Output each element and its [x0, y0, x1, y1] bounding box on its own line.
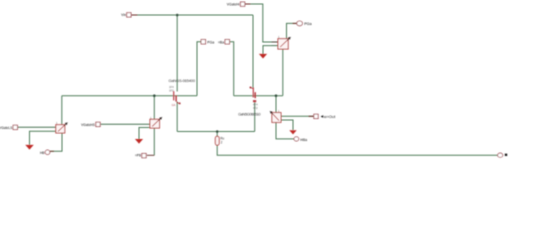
ground G3 [289, 130, 296, 134]
junction left gate line/RV2 [153, 94, 156, 97]
wire G4 stub [263, 46, 278, 54]
port out (circle) [498, 153, 503, 157]
wire P10 drop [230, 42, 234, 96]
svg-text:GaN5G066510: GaN5G066510 [238, 111, 261, 116]
svg-text:HB: HB [40, 151, 45, 155]
svg-text:GaNGS-065400: GaNGS-065400 [169, 78, 196, 83]
port VGateLS [13, 125, 17, 129]
svg-text:w=Out: w=Out [324, 114, 336, 119]
junction right gate line/RV3 [275, 94, 278, 97]
port P9 gate-left [201, 40, 206, 45]
svg-text:VGateLS: VGateLS [0, 126, 13, 130]
resistor R4 [215, 136, 219, 145]
port VmidOut [314, 114, 318, 118]
junction Vin/Q1 [176, 14, 179, 17]
wire HB port pin [50, 150, 54, 152]
wire Q2 source [254, 102, 256, 131]
potentiometer RV1 [56, 122, 67, 133]
port HBa (circle) [294, 137, 299, 141]
wire R4 top stub [216, 132, 218, 137]
port P10 gate-right [225, 40, 230, 45]
wire RV1 top riser [61, 96, 63, 125]
wire RV4 bottom to node [282, 49, 284, 96]
svg-text:1F2: 1F2 [169, 88, 174, 92]
port HB [45, 150, 50, 155]
port PGa (circle) [297, 21, 303, 26]
wire VGateLS port to RV1 [18, 126, 56, 128]
svg-text:HBa: HBa [300, 138, 307, 142]
wire PGa port pin [293, 22, 297, 24]
svg-text:=PB: =PB [135, 154, 142, 158]
potentiometer RV3 [271, 110, 282, 122]
svg-text:PGa: PGa [304, 22, 312, 26]
wire RV1 to ground G1 [30, 131, 56, 145]
wire RV2 to ground G2 [139, 128, 149, 140]
wire Q1 source [176, 102, 178, 132]
svg-text:Vin: Vin [121, 13, 126, 17]
port Vin [127, 13, 131, 17]
svg-text:PGa: PGa [207, 41, 214, 45]
wire switch-node bus [177, 131, 255, 133]
wire VGateHS port to RV2 [101, 123, 150, 125]
wire Vin port pin [131, 14, 138, 16]
svg-text:VGateHS: VGateHS [81, 123, 96, 127]
svg-text:VGateHi: VGateHi [227, 2, 240, 6]
ground G2 [135, 139, 143, 144]
wire VGateHi port to RV4 [245, 4, 278, 42]
junction bus/R4 [216, 130, 219, 133]
wire left gate riser to P9 [197, 42, 201, 96]
ground G4 [259, 54, 267, 59]
svg-text:2: 2 [221, 141, 223, 145]
svg-text:4F2: 4F2 [253, 106, 258, 110]
wire RV1 bottom to HB port [50, 133, 62, 151]
wire R4 bottom to out [217, 145, 497, 155]
wire RV3 top drop [275, 96, 277, 113]
wire right gate line [234, 95, 283, 97]
port PB [142, 153, 146, 157]
label out dot [505, 154, 507, 156]
wire Q2 drain [252, 15, 254, 88]
wire RV2 bottom to PB port [153, 128, 155, 155]
wire VGateHi port pin [245, 3, 251, 5]
wire RV2 top drop from junction [153, 96, 155, 119]
potentiometer RV4 [278, 36, 290, 49]
label VmidOut [321, 115, 324, 118]
port VGateHi [240, 2, 244, 6]
wire RV3 to VmidOut port [281, 115, 314, 117]
wire PGa port to RV4 top [287, 23, 297, 38]
svg-text:=Ba: =Ba [218, 41, 224, 45]
wire VmidOut port pin [309, 115, 314, 117]
svg-text:1F4: 1F4 [169, 85, 174, 89]
transistor Q2 [250, 87, 257, 102]
wire Vin rail [131, 14, 253, 16]
svg-text:GA: GA [172, 103, 176, 107]
transistor Q1 [174, 91, 181, 104]
wire RV3 to ground G3 [281, 120, 293, 130]
port VGateHS [96, 122, 100, 126]
pin box4 left pins [272, 42, 278, 46]
wire left gate line [62, 95, 197, 97]
potentiometer RV2 [150, 117, 162, 128]
wire RV3 bottom to HBa port [276, 123, 294, 139]
wire Q1 drain [176, 15, 178, 92]
ground G1 [25, 145, 33, 150]
